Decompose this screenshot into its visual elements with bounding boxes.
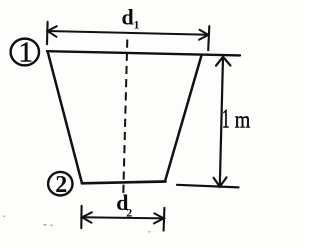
d2 left arrowhead [82, 212, 92, 222]
d1 right extension tick [208, 26, 209, 50]
trapezoid left side [48, 52, 82, 184]
d2 left extension tick [80, 206, 82, 228]
svg-text:d: d [122, 4, 134, 29]
svg-text:m: m [235, 108, 251, 134]
dashed centerline [123, 40, 127, 194]
dimension d2 line [82, 217, 164, 218]
svg-text:2: 2 [55, 172, 67, 198]
svg-text:1: 1 [222, 104, 230, 134]
dimension d1 line [48, 31, 209, 35]
node circle 2 [48, 172, 72, 196]
svg-text:1: 1 [134, 18, 140, 32]
trapezoid top edge [47, 51, 240, 55]
1m top arrowhead [216, 57, 230, 66]
trapezoid bottom edge [82, 182, 166, 184]
node circle 1 [11, 39, 39, 66]
1m bottom arrowhead [214, 177, 227, 186]
d2 right extension tick [163, 208, 166, 231]
d1 left extension tick [46, 22, 49, 44]
d2 right arrowhead [154, 213, 164, 223]
svg-text:2: 2 [126, 205, 132, 219]
d1 left arrowhead [48, 26, 57, 37]
dimension 1m vertical line [220, 57, 223, 186]
svg-text:1: 1 [19, 37, 34, 69]
1m bottom extension line [177, 185, 239, 188]
scan speckle noise [3, 216, 151, 233]
trapezoid right side [165, 56, 201, 181]
d1 right arrowhead [199, 30, 208, 40]
